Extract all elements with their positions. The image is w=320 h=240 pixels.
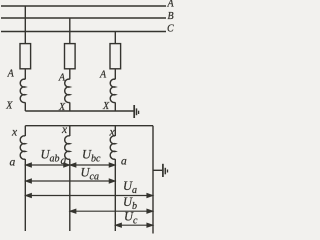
ground: primary neutral earth <box>134 105 138 118</box>
wire: phase bus C <box>1 31 166 33</box>
svg-text:X: X <box>102 101 110 112</box>
svg-text:a: a <box>10 157 16 169</box>
voltage arrow U_ab <box>26 163 70 167</box>
fuse FU1 <box>20 44 31 69</box>
wire: stub to secondary ground <box>153 169 162 171</box>
wire: TV1 primary X to neutral bus <box>24 102 26 111</box>
svg-text:x: x <box>61 124 68 136</box>
fuse FU3 <box>110 44 121 69</box>
svg-text:X: X <box>58 102 66 113</box>
svg-text:A: A <box>58 73 66 84</box>
svg-text:A: A <box>99 70 107 81</box>
wire: phase lead c <box>114 159 116 231</box>
wire: fuse FU3 to winding TV3 primary <box>114 69 116 80</box>
svg-text:X: X <box>5 101 13 112</box>
wire: phase bus B <box>1 17 166 19</box>
winding TV2 secondary x-a <box>65 136 70 159</box>
voltage arrow U_ca <box>26 179 115 183</box>
wire: TV3 primary X to neutral bus <box>114 102 116 111</box>
svg-text:a: a <box>121 156 127 168</box>
svg-text:A: A <box>7 69 15 80</box>
wire: tap from bus C to fuse FU3 <box>114 32 116 44</box>
svg-text:x: x <box>109 127 116 139</box>
wire: primary neutral bus (X terminals) <box>25 110 133 112</box>
winding TV1 secondary x-a <box>20 136 25 159</box>
wire: fuse FU1 to winding TV1 primary <box>24 69 26 80</box>
wire: phase lead b <box>69 159 71 231</box>
svg-text:B: B <box>168 11 174 22</box>
voltage arrow U_b <box>70 209 152 213</box>
voltage arrow U_a <box>26 194 153 198</box>
svg-text:A: A <box>167 0 175 9</box>
wire: tap from bus A to fuse FU1 <box>24 6 26 44</box>
wire: phase lead a <box>24 159 26 231</box>
svg-text:C: C <box>167 24 174 35</box>
wire: TV2 primary X to neutral bus <box>69 102 71 111</box>
wire: tap from bus B to fuse FU2 <box>69 18 71 44</box>
ground: secondary neutral earth <box>163 164 168 177</box>
wire: secondary bus to winding TV3 secondary <box>114 126 116 136</box>
voltage arrow U_c <box>116 223 153 227</box>
fuse FU2 <box>65 44 76 69</box>
winding TV2 primary A-X <box>65 79 70 102</box>
wire: secondary neutral bus (x terminals) <box>25 125 153 127</box>
winding TV3 secondary x-a <box>110 136 115 159</box>
wire: secondary neutral lead down right side <box>152 126 154 234</box>
winding TV3 primary A-X <box>110 79 115 102</box>
wire: fuse FU2 to winding TV2 primary <box>69 69 71 80</box>
winding TV1 primary A-X <box>20 79 25 102</box>
wire: secondary bus to winding TV1 secondary <box>24 126 26 136</box>
wire: phase bus A <box>1 5 166 7</box>
voltage arrow U_bc <box>70 163 115 167</box>
wire: secondary bus to winding TV2 secondary <box>69 126 71 136</box>
svg-text:x: x <box>11 127 18 139</box>
